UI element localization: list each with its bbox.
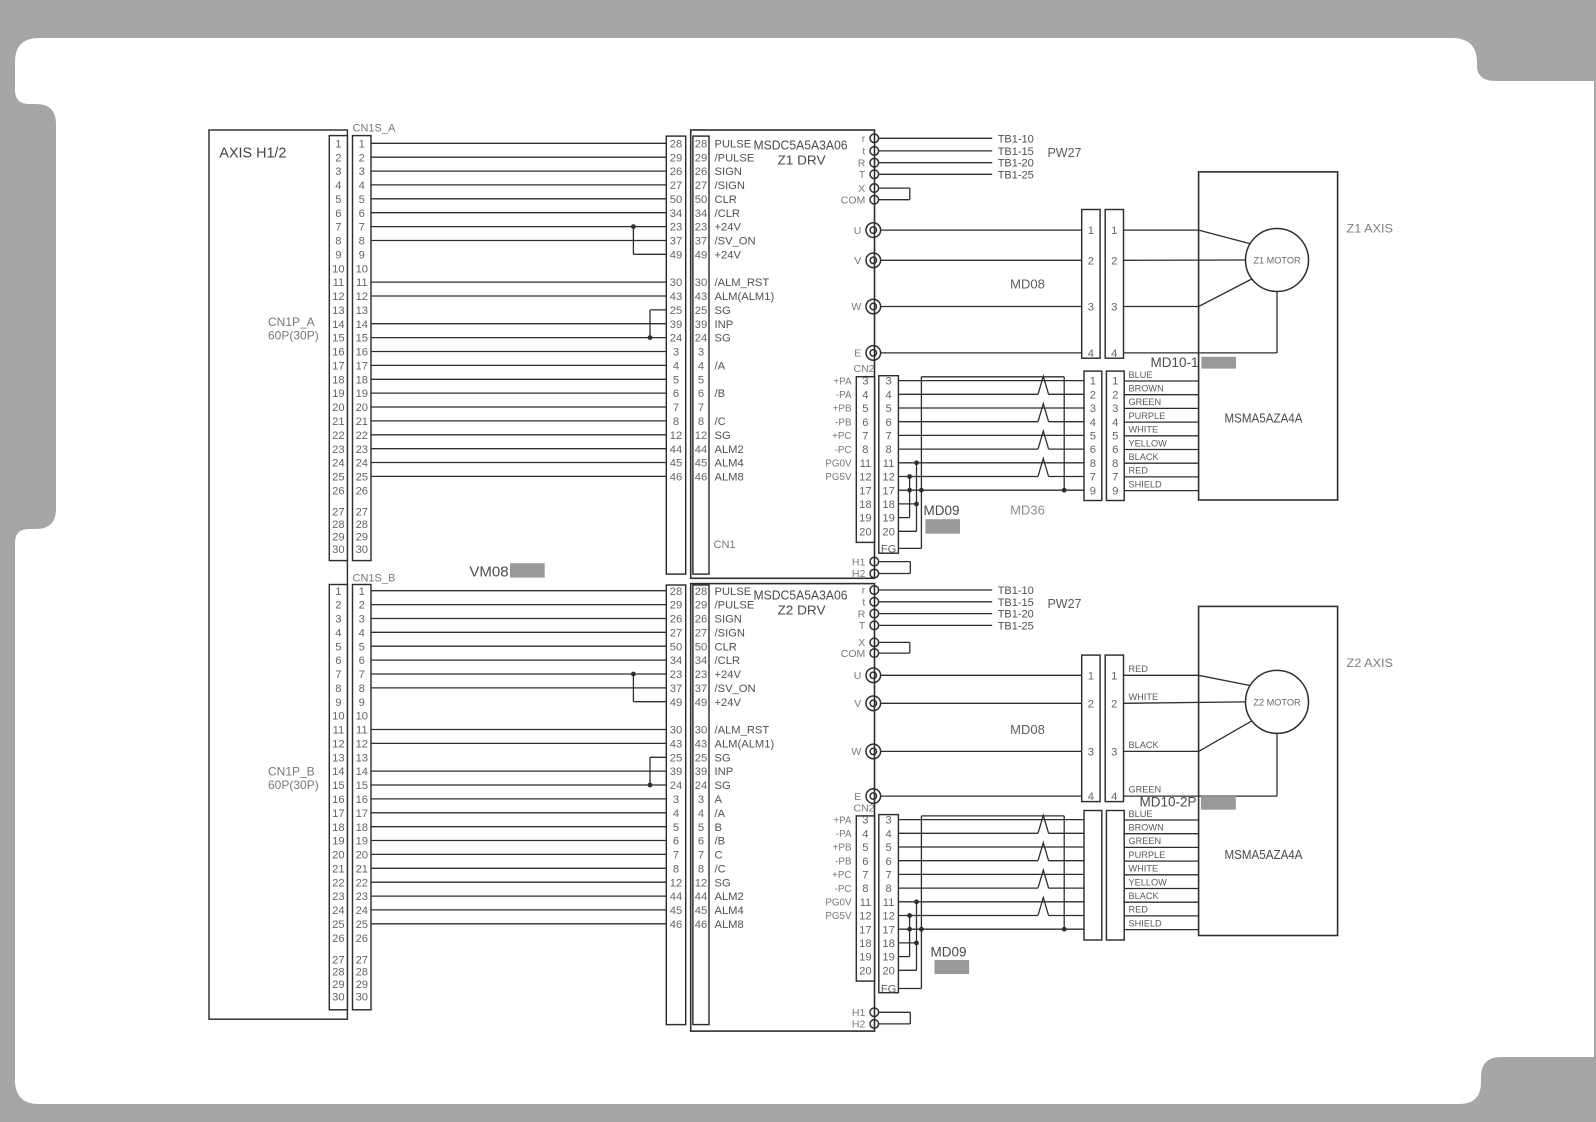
wire CN2 11 to encoder (Z2) xyxy=(898,901,1084,903)
svg-text:6: 6 xyxy=(698,836,704,848)
svg-text:PULSE: PULSE xyxy=(715,586,752,598)
svg-text:20: 20 xyxy=(882,965,894,977)
svg-text:43: 43 xyxy=(695,739,707,751)
svg-text:5: 5 xyxy=(862,842,868,854)
svg-text:24: 24 xyxy=(670,333,682,345)
junction dot V1 row12 (Z2) xyxy=(907,913,912,918)
svg-text:18: 18 xyxy=(332,822,344,834)
svg-text:4: 4 xyxy=(673,361,679,373)
svg-text:18: 18 xyxy=(882,499,894,511)
terminal T (Z2) xyxy=(870,621,879,630)
svg-text:-PA: -PA xyxy=(836,390,852,401)
wire CN1S_A pin 17 to CN1 (Z1) xyxy=(371,364,666,366)
wire CN1S_A pin 21 to CN1 (Z1) xyxy=(371,420,666,422)
wire encoder SHIELD to motor (Z2) xyxy=(1124,929,1198,931)
connector MD08 col2 (Z1) xyxy=(1105,210,1123,359)
wire CN1S_A pin 16 to CN1 (Z1) xyxy=(371,351,666,353)
svg-text:MSMA5AZA4A: MSMA5AZA4A xyxy=(1225,847,1303,862)
wire MD08 2 to motor (Z1) xyxy=(1124,259,1246,261)
svg-text:2: 2 xyxy=(335,152,341,164)
wire CN2 4 to encoder with twist (Z2) xyxy=(898,832,1038,834)
motor circle Z2 MOTOR xyxy=(1246,670,1309,733)
svg-text:16: 16 xyxy=(356,347,368,359)
svg-text:17: 17 xyxy=(332,808,344,820)
svg-text:13: 13 xyxy=(356,305,368,317)
terminal X (Z2) xyxy=(870,638,879,647)
svg-text:MD08: MD08 xyxy=(1010,722,1045,737)
driver Z1 box (MSDC5A5A3A06) xyxy=(691,130,875,578)
wire U to MD08 pin 1 (Z1) xyxy=(881,229,1082,231)
wire CN1S_B pin 15 to CN1 (Z2) xyxy=(371,784,666,786)
wire CN1S_B pin 20 to CN1 (Z2) xyxy=(371,853,666,855)
svg-text:12: 12 xyxy=(882,472,894,484)
main box AXIS H1/2 xyxy=(209,130,347,1019)
svg-text:V: V xyxy=(854,255,861,267)
driver Z2 outer pin column xyxy=(666,585,685,1025)
svg-text:CN1P_A: CN1P_A xyxy=(268,315,315,329)
wire stub CN2 20 (Z2) xyxy=(898,969,916,971)
svg-text:27: 27 xyxy=(332,507,344,519)
svg-text:12: 12 xyxy=(670,430,682,442)
terminal r (Z2) xyxy=(870,586,879,595)
driver Z1 outer pin column xyxy=(666,136,685,574)
svg-text:27: 27 xyxy=(356,507,368,519)
svg-text:44: 44 xyxy=(670,444,682,456)
svg-text:25: 25 xyxy=(356,472,368,484)
svg-text:+24V: +24V xyxy=(715,222,742,234)
svg-text:TB1-10: TB1-10 xyxy=(998,133,1034,145)
svg-text:8: 8 xyxy=(1090,458,1096,470)
svg-text:4: 4 xyxy=(335,627,341,639)
terminal W (Z2) xyxy=(866,744,881,759)
wire CN1S_B pin 21 to CN1 (Z2) xyxy=(371,867,666,869)
svg-text:R: R xyxy=(858,608,866,620)
svg-text:SHIELD: SHIELD xyxy=(1129,918,1163,928)
svg-text:22: 22 xyxy=(332,877,344,889)
svg-text:7: 7 xyxy=(698,402,704,414)
wire stub CN2 18 (Z1) xyxy=(898,503,916,505)
axis box Z2 AXIS xyxy=(1199,606,1338,935)
svg-text:/C: /C xyxy=(715,863,726,875)
svg-text:SG: SG xyxy=(715,780,731,792)
svg-text:ALM(ALM1): ALM(ALM1) xyxy=(715,739,775,751)
svg-text:4: 4 xyxy=(1111,348,1117,360)
svg-text:3: 3 xyxy=(862,376,868,388)
svg-text:10: 10 xyxy=(356,711,368,723)
svg-text:+PB: +PB xyxy=(833,843,852,854)
svg-text:21: 21 xyxy=(332,416,344,428)
svg-text:9: 9 xyxy=(359,249,365,261)
svg-text:SG: SG xyxy=(715,877,731,889)
svg-text:12: 12 xyxy=(859,911,871,923)
svg-text:20: 20 xyxy=(882,526,894,538)
svg-text:RED: RED xyxy=(1129,664,1149,674)
svg-text:11: 11 xyxy=(333,725,345,737)
wire CN1S_B pin 4 to CN1 pin 27 xyxy=(371,631,666,633)
svg-text:SG: SG xyxy=(715,333,731,345)
svg-text:10: 10 xyxy=(332,711,344,723)
MD10-1 redacted box xyxy=(1201,357,1236,369)
svg-text:4: 4 xyxy=(885,828,891,840)
svg-text:12: 12 xyxy=(332,291,344,303)
wire CN1S_A pin 11 to CN1 (Z1) xyxy=(371,281,666,283)
wire CN1S_B pin 24 to CN1 (Z2) xyxy=(371,909,666,911)
svg-text:44: 44 xyxy=(695,444,707,456)
terminal V (Z1) xyxy=(866,253,881,268)
svg-text:W: W xyxy=(851,746,861,758)
svg-text:PURPLE: PURPLE xyxy=(1129,411,1166,421)
svg-text:+24V: +24V xyxy=(715,249,742,261)
svg-text:CN1: CN1 xyxy=(714,539,736,551)
svg-text:23: 23 xyxy=(695,222,707,234)
svg-text:12: 12 xyxy=(356,291,368,303)
svg-text:3: 3 xyxy=(862,815,868,827)
junction dot V1 row12 (Z1) xyxy=(907,474,912,479)
svg-text:10: 10 xyxy=(332,263,344,275)
svg-text:Z2 MOTOR: Z2 MOTOR xyxy=(1253,697,1301,707)
svg-text:49: 49 xyxy=(670,249,682,261)
svg-text:6: 6 xyxy=(359,655,365,667)
svg-text:-PB: -PB xyxy=(835,856,852,867)
svg-text:WHITE: WHITE xyxy=(1129,864,1159,874)
svg-text:16: 16 xyxy=(332,794,344,806)
svg-text:7: 7 xyxy=(862,870,868,882)
svg-text:/PULSE: /PULSE xyxy=(715,600,755,612)
svg-text:43: 43 xyxy=(670,291,682,303)
svg-text:U: U xyxy=(854,225,862,237)
svg-text:17: 17 xyxy=(356,361,368,373)
wire CN2 8 to encoder with twist (Z2) xyxy=(898,887,1038,889)
svg-text:6: 6 xyxy=(885,417,891,429)
wire r to TB1-10 (Z1) xyxy=(879,137,993,139)
driver Z2 box (MSDC5A5A3A06) xyxy=(691,584,875,1032)
svg-text:4: 4 xyxy=(698,808,704,820)
svg-text:30: 30 xyxy=(332,992,344,1004)
svg-text:23: 23 xyxy=(332,891,344,903)
svg-text:34: 34 xyxy=(670,208,682,220)
svg-text:5: 5 xyxy=(698,374,704,386)
connector column CN1S_A xyxy=(353,136,372,561)
terminal R (Z2) xyxy=(870,609,879,618)
svg-text:26: 26 xyxy=(695,166,707,178)
svg-text:MD10-1: MD10-1 xyxy=(1150,355,1198,370)
svg-text:+PC: +PC xyxy=(832,870,851,881)
svg-text:+PB: +PB xyxy=(833,404,852,415)
wire branch +24V row7 to pin 49 (Z2) xyxy=(632,674,634,702)
svg-text:E: E xyxy=(854,791,861,803)
svg-text:17: 17 xyxy=(356,808,368,820)
svg-text:15: 15 xyxy=(332,780,344,792)
terminal E (Z1) xyxy=(866,346,881,361)
svg-text:/A: /A xyxy=(715,361,726,373)
svg-text:15: 15 xyxy=(356,780,368,792)
svg-text:5: 5 xyxy=(673,822,679,834)
svg-text:Z1 AXIS: Z1 AXIS xyxy=(1347,222,1394,236)
svg-text:14: 14 xyxy=(356,319,368,331)
svg-text:RED: RED xyxy=(1129,466,1149,476)
svg-text:6: 6 xyxy=(1112,444,1118,456)
svg-text:H2: H2 xyxy=(852,568,866,580)
svg-text:19: 19 xyxy=(332,836,344,848)
svg-text:39: 39 xyxy=(695,319,707,331)
svg-text:8: 8 xyxy=(673,863,679,875)
svg-text:25: 25 xyxy=(670,305,682,317)
svg-text:24: 24 xyxy=(695,780,707,792)
svg-text:39: 39 xyxy=(670,766,682,778)
wire CN1S_B pin 3 to CN1 pin 26 xyxy=(371,618,666,620)
svg-text:26: 26 xyxy=(695,614,707,626)
wire R to TB1-20 (Z1) xyxy=(879,162,993,164)
svg-text:28: 28 xyxy=(695,586,707,598)
svg-text:7: 7 xyxy=(673,850,679,862)
svg-text:/CLR: /CLR xyxy=(715,655,741,667)
svg-text:18: 18 xyxy=(859,938,871,950)
svg-text:3: 3 xyxy=(1088,747,1094,759)
svg-text:45: 45 xyxy=(695,905,707,917)
svg-text:BROWN: BROWN xyxy=(1129,823,1164,833)
wire U to MD08 pin 1 (Z2) xyxy=(881,674,1082,676)
svg-text:7: 7 xyxy=(335,669,341,681)
wire t to TB1-15 (Z2) xyxy=(879,601,993,603)
svg-text:9: 9 xyxy=(1090,485,1096,497)
svg-text:4: 4 xyxy=(1090,417,1096,429)
terminal H1 (Z1) xyxy=(870,557,879,566)
svg-text:CN1S_A: CN1S_A xyxy=(353,122,396,134)
wire CN1S_A pin 1 to CN1 pin 28 xyxy=(371,142,666,144)
svg-text:6: 6 xyxy=(885,856,891,868)
svg-text:17: 17 xyxy=(882,924,894,936)
wire CN1S_A pin 3 to CN1 pin 26 xyxy=(371,170,666,172)
svg-text:RED: RED xyxy=(1129,905,1149,915)
svg-text:37: 37 xyxy=(670,683,682,695)
wire t to TB1-15 (Z1) xyxy=(879,150,993,152)
svg-text:1: 1 xyxy=(335,138,341,150)
svg-text:21: 21 xyxy=(356,863,368,875)
svg-text:11: 11 xyxy=(883,458,895,470)
svg-text:5: 5 xyxy=(885,842,891,854)
svg-text:3: 3 xyxy=(673,347,679,359)
svg-text:ALM8: ALM8 xyxy=(715,472,744,484)
encoder connector MD10-1 col1 xyxy=(1084,371,1102,500)
svg-text:34: 34 xyxy=(695,655,707,667)
wire CN2 7 to encoder (Z1) xyxy=(898,434,1084,436)
svg-text:8: 8 xyxy=(862,444,868,456)
wire CN2 4 to encoder with twist (Z1) xyxy=(898,393,1038,395)
svg-text:FG: FG xyxy=(881,544,897,556)
jumper H1-H2 (Z2) xyxy=(879,1011,911,1013)
wire R to TB1-20 (Z2) xyxy=(879,613,993,615)
svg-text:24: 24 xyxy=(356,905,368,917)
svg-text:29: 29 xyxy=(332,531,344,543)
wire CN1S_A pin 19 to CN1 (Z1) xyxy=(371,392,666,394)
svg-text:2: 2 xyxy=(335,600,341,612)
wire CN1S_B pin 12 to CN1 (Z2) xyxy=(371,742,666,744)
svg-text:17: 17 xyxy=(882,485,894,497)
svg-text:25: 25 xyxy=(670,752,682,764)
axis box Z1 AXIS xyxy=(1199,172,1338,500)
svg-text:45: 45 xyxy=(670,905,682,917)
svg-text:24: 24 xyxy=(332,458,344,470)
svg-text:3: 3 xyxy=(1112,403,1118,415)
terminal r (Z1) xyxy=(870,134,879,143)
svg-text:20: 20 xyxy=(332,402,344,414)
wire stub CN2 19 (Z2) xyxy=(898,956,909,958)
svg-text:8: 8 xyxy=(885,883,891,895)
junction dots on shield row (Z2) xyxy=(907,927,912,932)
svg-text:BLUE: BLUE xyxy=(1129,370,1153,380)
svg-text:23: 23 xyxy=(356,891,368,903)
svg-text:8: 8 xyxy=(359,683,365,695)
wire CN2 11 to encoder (Z1) xyxy=(898,462,1084,464)
svg-text:15: 15 xyxy=(356,333,368,345)
svg-text:50: 50 xyxy=(695,194,707,206)
svg-text:13: 13 xyxy=(332,752,344,764)
svg-text:19: 19 xyxy=(859,513,871,525)
svg-text:8: 8 xyxy=(862,883,868,895)
svg-text:3: 3 xyxy=(1090,403,1096,415)
svg-text:5: 5 xyxy=(1112,431,1118,443)
junction dot SG branch on row 15 (Z1) xyxy=(648,335,653,340)
wire E to MD08 pin 4 (Z2) xyxy=(881,795,1082,797)
wire CN1S_A pin 7 to CN1 pin 23 xyxy=(371,226,666,228)
CN2 col1 (Z1) xyxy=(856,377,874,543)
svg-text:7: 7 xyxy=(698,850,704,862)
svg-text:CN1S_B: CN1S_B xyxy=(353,572,396,584)
terminal X (Z1) xyxy=(870,184,879,193)
wire CN1S_B pin 22 to CN1 (Z2) xyxy=(371,881,666,883)
svg-text:INP: INP xyxy=(715,766,734,778)
svg-text:8: 8 xyxy=(698,416,704,428)
svg-text:TB1-15: TB1-15 xyxy=(998,597,1034,609)
terminal U (Z1) xyxy=(866,223,881,238)
svg-text:CN1P_B: CN1P_B xyxy=(268,765,315,779)
svg-text:3: 3 xyxy=(1111,302,1117,314)
svg-text:24: 24 xyxy=(695,333,707,345)
svg-text:6: 6 xyxy=(1090,444,1096,456)
svg-text:10: 10 xyxy=(356,263,368,275)
svg-text:CLR: CLR xyxy=(715,641,737,653)
svg-text:4: 4 xyxy=(885,389,891,401)
svg-text:2: 2 xyxy=(1111,255,1117,267)
svg-text:27: 27 xyxy=(356,954,368,966)
svg-text:5: 5 xyxy=(359,194,365,206)
encoder connector MD10-1 col2 xyxy=(1106,371,1124,500)
svg-text:17: 17 xyxy=(332,361,344,373)
svg-text:6: 6 xyxy=(673,388,679,400)
svg-text:29: 29 xyxy=(695,600,707,612)
svg-text:PG0V: PG0V xyxy=(825,459,852,470)
svg-text:GREEN: GREEN xyxy=(1129,836,1162,846)
svg-text:4: 4 xyxy=(673,808,679,820)
svg-text:1: 1 xyxy=(1090,376,1096,388)
svg-text:CN2: CN2 xyxy=(854,363,875,375)
svg-text:15: 15 xyxy=(332,333,344,345)
svg-text:2: 2 xyxy=(359,152,365,164)
svg-text:18: 18 xyxy=(882,938,894,950)
svg-text:4: 4 xyxy=(1088,791,1094,803)
svg-text:28: 28 xyxy=(670,138,682,150)
svg-text:19: 19 xyxy=(332,388,344,400)
svg-text:4: 4 xyxy=(1112,417,1118,429)
wire CN1S_A pin 18 to CN1 (Z1) xyxy=(371,378,666,380)
svg-text:/C: /C xyxy=(715,416,726,428)
svg-text:WHITE: WHITE xyxy=(1129,425,1159,435)
svg-text:3: 3 xyxy=(335,614,341,626)
svg-text:20: 20 xyxy=(859,526,871,538)
svg-text:18: 18 xyxy=(859,499,871,511)
svg-text:BLUE: BLUE xyxy=(1129,809,1153,819)
svg-text:22: 22 xyxy=(356,877,368,889)
wire E to MD08 pin 4 (Z1) xyxy=(881,352,1082,354)
svg-text:23: 23 xyxy=(332,444,344,456)
motor circle Z1 MOTOR xyxy=(1246,229,1309,292)
svg-text:4: 4 xyxy=(335,180,341,192)
svg-text:YELLOW: YELLOW xyxy=(1129,438,1168,448)
wire CN1S_A pin 14 to CN1 (Z1) xyxy=(371,323,666,325)
svg-text:SHIELD: SHIELD xyxy=(1129,479,1163,489)
svg-text:18: 18 xyxy=(332,374,344,386)
CN2 col2 (Z2) xyxy=(879,815,899,993)
terminal COM (Z1) xyxy=(870,195,879,204)
wire encoder BLACK to motor (Z1) xyxy=(1124,462,1198,464)
terminal t (Z2) xyxy=(870,598,879,607)
wire CN2 6 to encoder with twist (Z1) xyxy=(898,421,1038,423)
svg-text:3: 3 xyxy=(359,166,365,178)
cable shield outline (Z2) xyxy=(920,816,922,989)
svg-text:GREEN: GREEN xyxy=(1129,785,1162,795)
svg-text:SIGN: SIGN xyxy=(715,166,742,178)
svg-text:/B: /B xyxy=(715,836,726,848)
svg-text:CN2: CN2 xyxy=(854,803,875,815)
svg-text:VM08: VM08 xyxy=(469,564,508,581)
svg-text:TB1-20: TB1-20 xyxy=(998,158,1034,170)
wire MD08 3 to motor (Z2) xyxy=(1124,750,1199,752)
svg-text:23: 23 xyxy=(670,669,682,681)
svg-text:+PA: +PA xyxy=(833,376,852,387)
wire encoder YELLOW to motor (Z2) xyxy=(1124,888,1198,890)
svg-text:23: 23 xyxy=(695,669,707,681)
svg-text:11: 11 xyxy=(883,897,895,909)
svg-text:TB1-20: TB1-20 xyxy=(998,609,1034,621)
svg-text:/A: /A xyxy=(715,808,726,820)
svg-text:7: 7 xyxy=(359,222,365,234)
wire stub CN2 19 (Z1) xyxy=(898,517,909,519)
svg-text:14: 14 xyxy=(332,766,344,778)
svg-text:16: 16 xyxy=(356,794,368,806)
wire CN2 8 to encoder with twist (Z1) xyxy=(898,448,1038,450)
svg-text:BLACK: BLACK xyxy=(1129,740,1160,750)
svg-text:1: 1 xyxy=(1112,376,1118,388)
svg-text:+PA: +PA xyxy=(833,815,852,826)
wire branch +24V row7 to pin 49 (Z1) xyxy=(632,227,634,255)
svg-text:t: t xyxy=(862,597,865,609)
svg-text:TB1-25: TB1-25 xyxy=(998,620,1034,632)
wire CN1S_B pin 8 to CN1 pin 37 xyxy=(371,687,666,689)
wire r to TB1-10 (Z2) xyxy=(879,589,993,591)
svg-text:7: 7 xyxy=(335,222,341,234)
svg-text:21: 21 xyxy=(356,416,368,428)
svg-text:5: 5 xyxy=(1090,431,1096,443)
wire T to TB1-25 (Z1) xyxy=(879,173,993,175)
wire MD08 1 to motor (Z2) xyxy=(1124,674,1199,676)
svg-text:27: 27 xyxy=(695,627,707,639)
svg-text:39: 39 xyxy=(695,766,707,778)
wire encoder BLUE to motor (Z1) xyxy=(1124,380,1198,382)
terminal H1 (Z2) xyxy=(870,1008,879,1017)
wire encoder BROWN to motor (Z2) xyxy=(1124,833,1198,835)
svg-text:30: 30 xyxy=(670,725,682,737)
svg-text:MD09: MD09 xyxy=(930,945,966,960)
